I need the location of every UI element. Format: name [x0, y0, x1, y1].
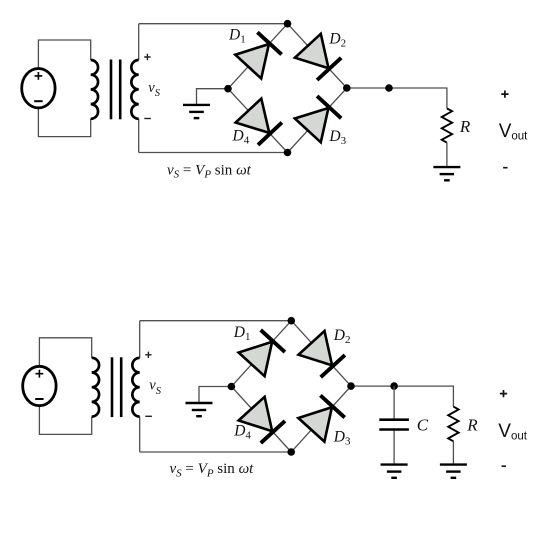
- wire bottom (secondary to bridge bottom): [139, 152, 288, 154]
- transformer primary winding: [91, 60, 98, 119]
- ground capacitor (bottom): [381, 465, 408, 478]
- svg-text:vS = VP sin ωt: vS = VP sin ωt: [167, 162, 252, 180]
- resistor R: [448, 407, 458, 442]
- bridge right node (bottom): [347, 382, 355, 390]
- bridge left node (top): [224, 85, 232, 93]
- output junction node (bottom): [390, 382, 398, 390]
- svg-text:D2: D2: [333, 327, 351, 346]
- label output minus: [503, 167, 507, 169]
- ac source: [23, 366, 56, 405]
- label output plus: [501, 91, 508, 98]
- bridge bottom node (top): [284, 149, 292, 157]
- svg-text:Vout: Vout: [498, 421, 527, 443]
- wire resistor to ground: [446, 143, 448, 166]
- capacitor C: [379, 420, 409, 430]
- wire primary loop: [39, 338, 91, 435]
- diode D1 (bottom): [239, 330, 285, 376]
- bridge bottom node (bottom): [287, 448, 295, 456]
- bridge right node (top): [343, 84, 351, 92]
- wire bottom (secondary to bridge bottom): [140, 451, 292, 453]
- diode D3 (bottom): [298, 395, 344, 441]
- diode D1: [235, 32, 281, 78]
- label secondary minus: [145, 415, 152, 417]
- label secondary plus: [144, 54, 150, 60]
- resistor R: [442, 108, 452, 142]
- ground resistor (top): [433, 167, 460, 180]
- svg-text:D3: D3: [328, 128, 346, 147]
- svg-text:D1: D1: [228, 27, 246, 46]
- output junction node (top): [385, 84, 393, 92]
- transformer secondary winding: [131, 60, 138, 119]
- transformer core: [111, 357, 123, 417]
- label output plus: [500, 390, 507, 397]
- svg-text:C: C: [417, 415, 429, 434]
- wire to bridge ground: [199, 387, 231, 403]
- bridge top node (bottom): [288, 317, 296, 325]
- diode D2: [295, 34, 341, 80]
- wire bridge arms: [228, 24, 347, 153]
- ground bridge (bottom): [186, 403, 213, 416]
- diode D4 (bottom): [239, 397, 285, 443]
- wire primary loop: [38, 40, 90, 137]
- wire resistor to ground: [452, 441, 454, 463]
- ground resistor (bottom): [440, 465, 467, 478]
- wire output: [351, 386, 453, 407]
- svg-text:R: R: [466, 416, 478, 435]
- svg-text:vS: vS: [149, 378, 161, 397]
- svg-text:vS = VP sin ωt: vS = VP sin ωt: [170, 461, 255, 479]
- wire top (secondary to bridge top): [140, 320, 292, 322]
- label secondary minus: [144, 118, 151, 120]
- svg-text:D4: D4: [233, 423, 251, 442]
- transformer primary winding: [92, 358, 99, 417]
- svg-text:D4: D4: [232, 128, 250, 147]
- transformer core: [110, 60, 122, 120]
- wire secondary vertical: [138, 24, 140, 153]
- svg-text:D1: D1: [233, 324, 251, 343]
- label output minus: [502, 465, 506, 467]
- svg-text:D3: D3: [333, 429, 351, 448]
- ac source: [22, 69, 55, 108]
- wire bridge arms: [231, 321, 351, 452]
- bridge top node (top): [284, 20, 292, 28]
- svg-text:vS: vS: [148, 80, 160, 99]
- wire output: [347, 88, 447, 108]
- diode D2 (bottom): [299, 331, 345, 377]
- svg-text:Vout: Vout: [499, 121, 528, 143]
- diode D4: [236, 99, 282, 145]
- wire capacitor stem: [393, 386, 395, 463]
- svg-text:R: R: [459, 117, 471, 136]
- diode D3: [295, 96, 341, 142]
- svg-text:D2: D2: [328, 31, 346, 50]
- bridge left node (bottom): [228, 383, 236, 391]
- label secondary plus: [145, 352, 151, 358]
- transformer secondary winding: [132, 358, 139, 417]
- wire secondary vertical: [139, 321, 141, 452]
- ground bridge (top): [183, 105, 210, 118]
- wire top (secondary to bridge top): [139, 23, 288, 25]
- wire to bridge ground: [197, 89, 229, 104]
